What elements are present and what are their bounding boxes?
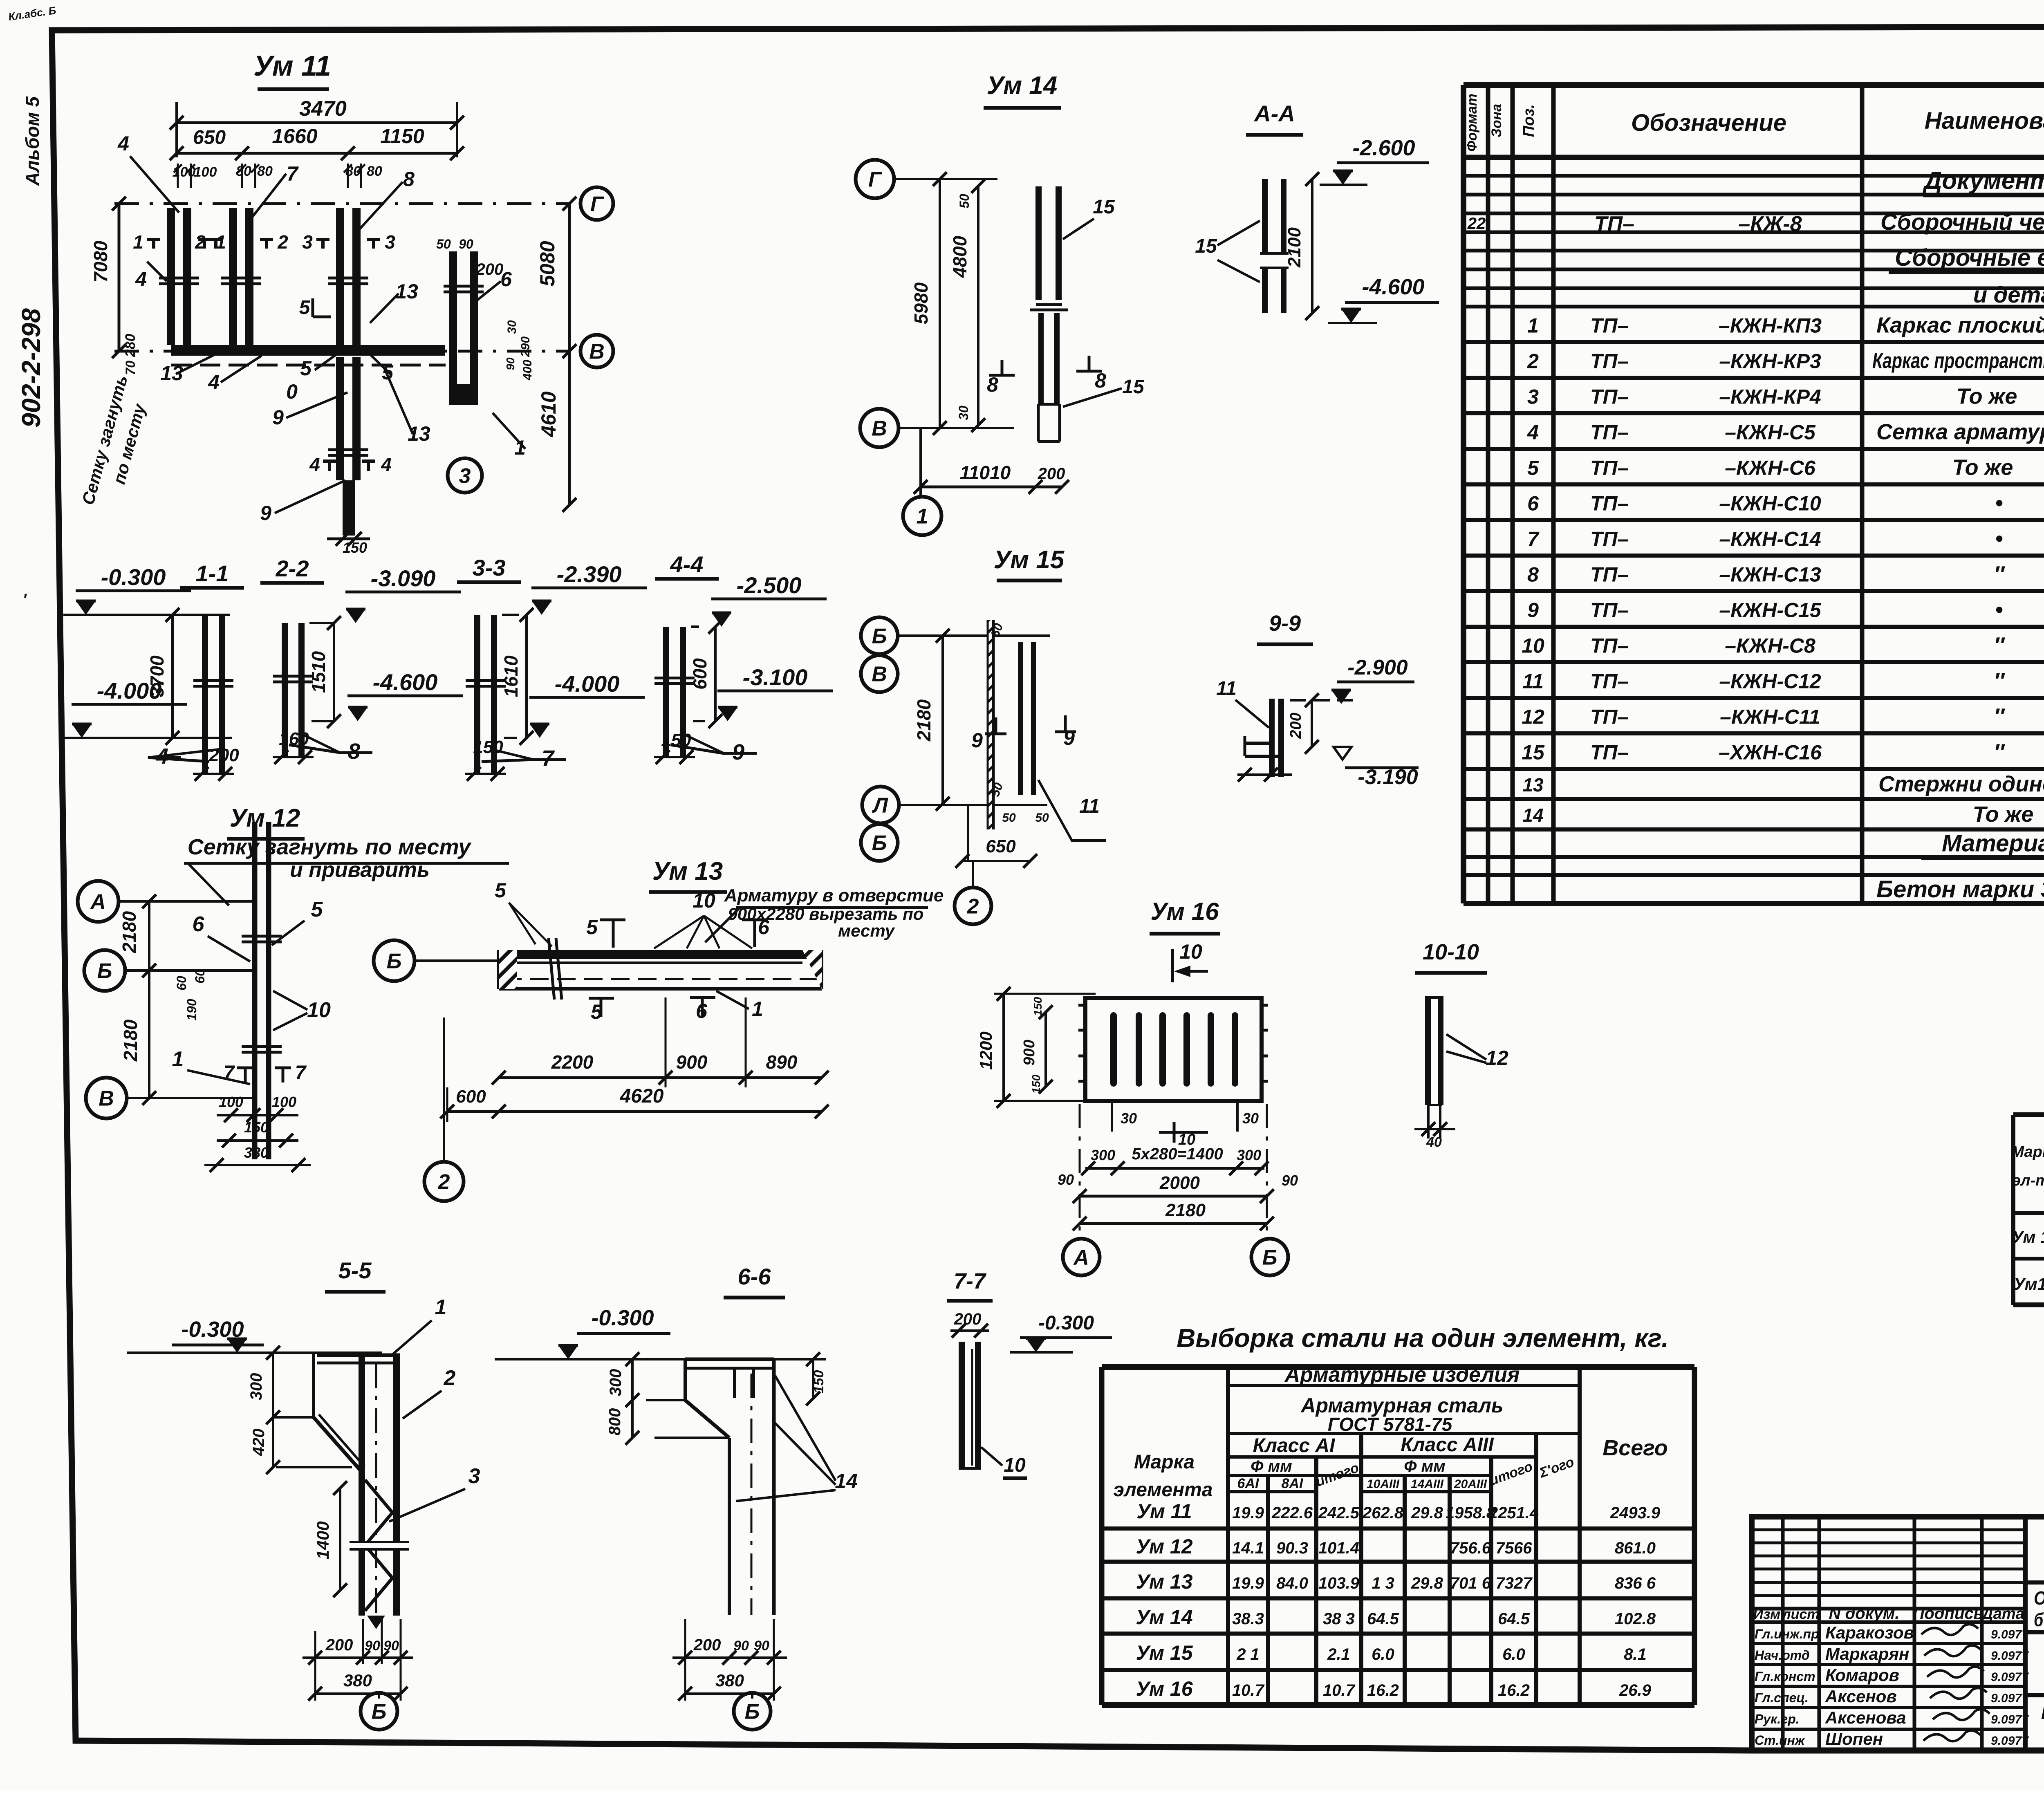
svg-text:29.8: 29.8: [1411, 1574, 1443, 1592]
svg-text:2180: 2180: [120, 1019, 141, 1062]
svg-text:9.0977: 9.0977: [1991, 1649, 2029, 1663]
svg-text:11: 11: [1522, 670, 1544, 693]
svg-text:11: 11: [1216, 678, 1237, 699]
svg-text:Ум 12: Ум 12: [1136, 1535, 1192, 1558]
svg-text:30: 30: [1242, 1110, 1259, 1127]
svg-text:1150: 1150: [380, 125, 424, 148]
svg-text:1400: 1400: [313, 1521, 332, 1559]
svg-text:-2.500: -2.500: [737, 572, 802, 598]
svg-text:7: 7: [1527, 528, 1540, 551]
svg-text:Ум 15: Ум 15: [1136, 1641, 1193, 1664]
svg-text:3470: 3470: [299, 97, 347, 121]
svg-text:2180: 2180: [913, 699, 935, 742]
svg-text:15: 15: [1522, 741, 1545, 764]
svg-text:Подпись: Подпись: [1913, 1605, 1983, 1623]
svg-text:–КЖН-С13: –КЖН-С13: [1719, 563, 1821, 586]
svg-text:Шопен: Шопен: [1825, 1729, 1883, 1748]
svg-text:16.2: 16.2: [1498, 1681, 1530, 1699]
svg-text:В: В: [872, 663, 887, 686]
svg-text:90: 90: [1282, 1172, 1298, 1189]
svg-text:Б: Б: [1262, 1246, 1277, 1270]
svg-text:Б: Б: [387, 950, 402, 973]
svg-text:То же: То же: [1957, 384, 2017, 409]
svg-text:200: 200: [954, 1310, 982, 1328]
svg-text:Выборка стали на один элем: Выборка стали на один элемент, кг.: [1177, 1323, 1669, 1353]
svg-text:84.0: 84.0: [1276, 1574, 1308, 1592]
svg-text:Обозначение: Обозначение: [1631, 110, 1786, 136]
svg-text:-3.100: -3.100: [743, 664, 808, 690]
svg-text:Марка: Марка: [1134, 1451, 1195, 1473]
svg-text:и детали: и детали: [1973, 282, 2044, 307]
svg-text:90: 90: [754, 1638, 769, 1654]
svg-text:6АI: 6АI: [1237, 1476, 1260, 1491]
svg-text:Каркас пространственный КР3: Каркас пространственный КР3: [1872, 349, 2044, 373]
svg-text:2: 2: [967, 895, 979, 919]
svg-text:380: 380: [343, 1671, 372, 1690]
svg-text:380: 380: [715, 1671, 744, 1690]
svg-text:4: 4: [1527, 421, 1539, 444]
svg-text:150: 150: [661, 730, 691, 750]
svg-text:3: 3: [302, 231, 313, 253]
svg-text:14АIII: 14АIII: [1411, 1477, 1444, 1491]
svg-text:В: В: [99, 1087, 114, 1111]
svg-text:8: 8: [1527, 563, 1539, 586]
svg-text:200: 200: [1287, 713, 1304, 739]
svg-text:26.9: 26.9: [1619, 1681, 1652, 1699]
svg-text:9: 9: [971, 729, 983, 752]
svg-text:2180: 2180: [119, 911, 140, 953]
svg-text:19.9: 19.9: [1232, 1574, 1264, 1592]
svg-text:90: 90: [1058, 1171, 1074, 1188]
svg-text:80: 80: [257, 164, 273, 179]
svg-text:1-1: 1-1: [196, 560, 229, 586]
svg-text:Класс АI: Класс АI: [1253, 1435, 1336, 1457]
svg-text:Формат: Формат: [1464, 94, 1480, 152]
svg-text:Очистные сооружения для сточн: Очистные сооружения для сточных вод от м…: [2034, 1587, 2044, 1609]
svg-text:•: •: [1995, 491, 2003, 515]
svg-text:Класс АIII: Класс АIII: [1401, 1434, 1494, 1456]
svg-text:14: 14: [1522, 805, 1543, 826]
svg-text:64.5: 64.5: [1498, 1610, 1530, 1628]
svg-text:150: 150: [473, 737, 503, 757]
svg-text:242.5: 242.5: [1318, 1504, 1360, 1522]
svg-text:7327: 7327: [1496, 1574, 1533, 1592]
svg-text:12: 12: [1522, 706, 1544, 728]
svg-text:13: 13: [1522, 774, 1544, 796]
svg-text:2000: 2000: [1159, 1173, 1200, 1193]
svg-text:А: А: [90, 890, 106, 914]
svg-text:4: 4: [309, 454, 320, 475]
svg-text:2: 2: [444, 1366, 456, 1390]
svg-text:10: 10: [1004, 1455, 1026, 1476]
svg-text:900: 900: [1021, 1040, 1038, 1065]
svg-text:Г: Г: [590, 193, 604, 216]
svg-text:6-6: 6-6: [738, 1264, 771, 1289]
svg-text:-4.600: -4.600: [1362, 275, 1424, 299]
svg-text:50: 50: [1035, 811, 1049, 825]
svg-text:Сетку загнуть по месту: Сетку загнуть по месту: [188, 835, 472, 859]
svg-text:200: 200: [476, 260, 504, 278]
svg-text:9-9: 9-9: [1269, 611, 1301, 636]
svg-text:7: 7: [295, 1062, 307, 1084]
svg-text:1: 1: [1527, 314, 1539, 337]
svg-text:15: 15: [1093, 196, 1115, 218]
svg-text:-0.300: -0.300: [101, 564, 166, 590]
svg-text:20АIII: 20АIII: [1454, 1477, 1487, 1491]
svg-text:–КЖН-КП3: –КЖН-КП3: [1719, 314, 1822, 337]
svg-text:В: В: [589, 340, 605, 364]
svg-text:40: 40: [1426, 1134, 1442, 1150]
svg-text:ТП–: ТП–: [1590, 634, 1629, 657]
svg-text:Б: Б: [872, 832, 887, 855]
svg-text:19.9: 19.9: [1232, 1504, 1264, 1522]
svg-text:10: 10: [693, 889, 715, 912]
svg-text:Документация: Документация: [1922, 167, 2044, 194]
svg-text:150: 150: [343, 539, 367, 556]
svg-text:1 3: 1 3: [1372, 1574, 1394, 1592]
svg-text:10: 10: [1522, 634, 1544, 657]
svg-text:38 3: 38 3: [1323, 1610, 1355, 1628]
svg-text:800: 800: [606, 1408, 624, 1436]
svg-text:5980: 5980: [910, 282, 932, 324]
svg-text:Л: Л: [872, 794, 888, 818]
svg-text:5: 5: [300, 357, 312, 380]
svg-text:ТП–: ТП–: [1590, 421, 1629, 444]
svg-text:Арматурные изделия: Арматурные изделия: [1284, 1363, 1520, 1387]
svg-text:1: 1: [435, 1295, 447, 1319]
svg-text:13: 13: [395, 280, 418, 303]
svg-text:Ум 12: Ум 12: [230, 804, 300, 832]
svg-text:7-7: 7-7: [954, 1269, 987, 1293]
svg-text:7: 7: [287, 162, 299, 185]
svg-text:–КЖ-8: –КЖ-8: [1738, 212, 1802, 236]
svg-text:ТП–: ТП–: [1590, 385, 1629, 408]
svg-text:–КЖН-С8: –КЖН-С8: [1725, 634, 1815, 657]
svg-text:Ф мм: Ф мм: [1251, 1457, 1292, 1475]
svg-text:290: 290: [519, 336, 532, 357]
svg-text:Сетка арматурная С5: Сетка арматурная С5: [1876, 420, 2044, 444]
svg-text:9.0977: 9.0977: [1991, 1692, 2029, 1705]
svg-text:Монолитные участки: Монолитные участки: [2041, 1698, 2044, 1724]
svg-text:Каракозов: Каракозов: [1825, 1623, 1914, 1642]
svg-text:Стержни одиночные: Стержни одиночные: [1878, 772, 2044, 796]
svg-text:То же: То же: [1952, 455, 2013, 480]
svg-text:Сборочные единицы: Сборочные единицы: [1895, 244, 2044, 271]
svg-text:8: 8: [348, 739, 360, 764]
svg-text:60: 60: [193, 969, 207, 984]
svg-text:600: 600: [456, 1087, 486, 1107]
svg-text:лист: лист: [1781, 1607, 1819, 1622]
svg-text:280: 280: [123, 334, 138, 358]
svg-text:3: 3: [468, 1464, 480, 1488]
svg-text:101.4: 101.4: [1318, 1539, 1359, 1557]
svg-text:″: ″: [1994, 740, 2005, 764]
svg-text:Маркарян: Маркарян: [1825, 1644, 1909, 1663]
svg-text:Зона: Зона: [1489, 104, 1504, 137]
svg-text:Арматуру в отверстие: Арматуру в отверстие: [724, 885, 944, 905]
svg-text:•: •: [1995, 598, 2003, 622]
svg-text:–КЖН-КР4: –КЖН-КР4: [1719, 385, 1821, 408]
svg-text:–ХЖН-С16: –ХЖН-С16: [1719, 741, 1822, 764]
svg-text:2: 2: [1527, 350, 1539, 373]
svg-text:Ум 11: Ум 11: [1136, 1500, 1192, 1523]
svg-text:ТП–: ТП–: [1590, 670, 1629, 693]
svg-text:ТП–: ТП–: [1590, 599, 1629, 622]
svg-text:Б: Б: [372, 1700, 387, 1724]
svg-text:месту: месту: [838, 921, 896, 940]
svg-text:Б: Б: [745, 1700, 760, 1724]
svg-text:ТП–: ТП–: [1590, 457, 1629, 480]
svg-text:50: 50: [1002, 811, 1016, 825]
svg-text:-2.600: -2.600: [1352, 136, 1415, 160]
svg-text:150: 150: [1031, 997, 1044, 1016]
svg-text:Ум 14: Ум 14: [1136, 1606, 1192, 1629]
svg-text:Ум13: Ум13: [2013, 1274, 2044, 1293]
svg-text:1: 1: [752, 997, 763, 1020]
svg-text:64.5: 64.5: [1367, 1610, 1399, 1628]
svg-text:-2.900: -2.900: [1347, 656, 1408, 679]
svg-text:ТП–: ТП–: [1590, 492, 1629, 515]
svg-text:–КЖН-С11: –КЖН-С11: [1720, 706, 1820, 728]
svg-text:4: 4: [208, 371, 220, 394]
svg-text:6: 6: [193, 912, 205, 936]
svg-text:Ф мм: Ф мм: [1404, 1457, 1446, 1475]
svg-text:9: 9: [272, 406, 284, 429]
svg-text:2200: 2200: [551, 1051, 594, 1073]
svg-text:60: 60: [174, 976, 189, 991]
svg-text:В: В: [872, 417, 887, 441]
svg-text:Материалы.: Материалы.: [1942, 830, 2044, 857]
svg-text:7: 7: [224, 1062, 235, 1084]
svg-text:Ст.инж: Ст.инж: [1755, 1733, 1805, 1748]
svg-text:Аксенов: Аксенов: [1825, 1687, 1897, 1706]
svg-text:3: 3: [459, 464, 471, 488]
svg-text:150: 150: [244, 1119, 269, 1136]
svg-text:10: 10: [307, 998, 331, 1022]
svg-text:Бетон марки 300: Бетон марки 300: [1876, 876, 2044, 903]
svg-text:756.6: 756.6: [1450, 1539, 1491, 1557]
svg-text:А-А: А-А: [1253, 101, 1295, 126]
svg-text:12: 12: [1486, 1047, 1508, 1069]
svg-text:5: 5: [586, 916, 598, 939]
svg-text:13: 13: [408, 422, 430, 445]
svg-text:Ум 11: Ум 11: [2012, 1227, 2044, 1246]
svg-text:11: 11: [1079, 796, 1100, 817]
svg-text:5: 5: [311, 898, 323, 921]
svg-text:То же: То же: [1973, 802, 2034, 827]
svg-text:30: 30: [956, 406, 971, 420]
svg-text:50: 50: [436, 237, 451, 251]
svg-text:1610: 1610: [500, 655, 522, 697]
svg-text:15: 15: [1195, 235, 1217, 257]
svg-text:890: 890: [766, 1051, 798, 1073]
svg-text:-3.090: -3.090: [371, 565, 436, 591]
svg-text:1: 1: [133, 231, 143, 253]
svg-text:14: 14: [835, 1470, 858, 1493]
svg-text:90: 90: [733, 1638, 749, 1654]
svg-text:Б: Б: [97, 959, 112, 983]
svg-text:90.3: 90.3: [1276, 1539, 1308, 1557]
svg-text:Изм: Изм: [1753, 1607, 1781, 1622]
svg-text:80: 80: [367, 164, 382, 179]
svg-text:200: 200: [208, 745, 239, 765]
svg-text:4800: 4800: [949, 235, 970, 278]
svg-text:Комаров: Комаров: [1825, 1665, 1899, 1685]
svg-text:1660: 1660: [272, 125, 317, 148]
svg-text:15: 15: [1122, 376, 1145, 398]
svg-text:элемента: элемента: [1114, 1479, 1213, 1501]
svg-text:300: 300: [607, 1369, 625, 1396]
svg-text:Всего: Всего: [1602, 1436, 1668, 1460]
svg-text:0: 0: [286, 380, 298, 403]
svg-text:Ум 13: Ум 13: [652, 857, 723, 885]
svg-text:Ум 15: Ум 15: [994, 546, 1065, 574]
svg-text:-4.000: -4.000: [555, 671, 620, 697]
svg-text:Аксенова: Аксенова: [1825, 1708, 1906, 1727]
svg-text:″: ″: [1994, 633, 2005, 658]
svg-text:4620: 4620: [620, 1085, 664, 1107]
svg-text:150: 150: [1030, 1074, 1042, 1094]
svg-text:9.0977: 9.0977: [1991, 1713, 2029, 1726]
svg-text:103.9: 103.9: [1318, 1574, 1360, 1592]
svg-text:100: 100: [219, 1094, 243, 1110]
svg-text:Г: Г: [868, 168, 882, 192]
svg-text:90: 90: [365, 1638, 380, 1654]
svg-text:Ум 13: Ум 13: [1136, 1570, 1192, 1593]
svg-text:8.1: 8.1: [1624, 1645, 1647, 1663]
svg-text:1958.8: 1958.8: [1446, 1504, 1496, 1522]
svg-text:9.0977: 9.0977: [1991, 1734, 2029, 1748]
svg-text:6: 6: [500, 268, 512, 291]
svg-text:600: 600: [689, 658, 710, 690]
svg-text:2493.9: 2493.9: [1610, 1504, 1661, 1522]
svg-text:100: 100: [194, 164, 217, 180]
svg-text:4610: 4610: [537, 391, 560, 437]
svg-text:ТП–: ТП–: [1590, 350, 1629, 373]
svg-text:902-2-298: 902-2-298: [16, 308, 46, 428]
svg-text:90: 90: [383, 1638, 399, 1654]
svg-text:4: 4: [381, 454, 392, 475]
svg-text:8АI: 8АI: [1282, 1476, 1304, 1491]
svg-text:Поз.: Поз.: [1520, 104, 1537, 137]
svg-text:ТП–: ТП–: [1590, 528, 1629, 551]
svg-text:2251.4: 2251.4: [1488, 1504, 1539, 1522]
svg-text:7: 7: [542, 746, 555, 771]
svg-text:262.8: 262.8: [1362, 1504, 1404, 1522]
svg-text:90: 90: [459, 237, 473, 251]
svg-text:5: 5: [299, 297, 311, 318]
svg-text:ТП–: ТП–: [1590, 314, 1629, 337]
svg-text:–КЖН-С10: –КЖН-С10: [1719, 492, 1821, 515]
svg-text:Ум 16: Ум 16: [1136, 1677, 1193, 1700]
svg-text:6: 6: [1527, 492, 1539, 515]
svg-text:и приварить: и приварить: [290, 858, 430, 882]
svg-text:': ': [22, 591, 27, 609]
svg-text:50: 50: [957, 194, 972, 208]
svg-text:650: 650: [193, 127, 226, 148]
svg-text:1: 1: [172, 1047, 184, 1071]
svg-text:4: 4: [117, 132, 129, 155]
svg-text:Гл.инж.пр: Гл.инж.пр: [1755, 1627, 1819, 1641]
svg-text:30: 30: [505, 320, 519, 334]
svg-text:5: 5: [1527, 457, 1539, 480]
svg-text:5-5: 5-5: [338, 1257, 372, 1283]
svg-text:4: 4: [156, 744, 168, 769]
svg-text:150: 150: [811, 1370, 827, 1394]
svg-text:1: 1: [917, 505, 928, 529]
svg-text:5080: 5080: [536, 241, 559, 286]
svg-text:200: 200: [693, 1636, 721, 1654]
svg-text:-4.600: -4.600: [373, 669, 438, 695]
svg-text:14.1: 14.1: [1232, 1539, 1264, 1557]
svg-text:300: 300: [247, 1373, 265, 1401]
svg-text:–КЖН-С12: –КЖН-С12: [1719, 670, 1821, 693]
svg-text:билей с расходом воды 20 л/сек: билей с расходом воды 20 л/сек. при обор…: [2034, 1609, 2044, 1630]
svg-text:″: ″: [1994, 669, 2005, 693]
svg-text:4-4: 4-4: [670, 551, 704, 577]
svg-text:эл-та: эл-та: [2012, 1172, 2044, 1189]
svg-text:ТП–: ТП–: [1594, 212, 1634, 236]
svg-text:N докум.: N докум.: [1829, 1605, 1900, 1623]
svg-text:6.0: 6.0: [1502, 1645, 1525, 1663]
svg-text:100: 100: [272, 1094, 296, 1110]
svg-text:Нач.отд: Нач.отд: [1755, 1648, 1810, 1663]
svg-text:2-2: 2-2: [276, 556, 309, 581]
svg-text:9: 9: [260, 502, 271, 524]
svg-text:″: ″: [1994, 562, 2005, 587]
svg-text:190: 190: [184, 999, 199, 1021]
svg-text:ТП–: ТП–: [1590, 706, 1629, 728]
svg-text:6.0: 6.0: [1372, 1645, 1394, 1663]
svg-text:″: ″: [1994, 704, 2005, 729]
svg-text:ГОСТ 5781-75: ГОСТ 5781-75: [1328, 1414, 1453, 1435]
svg-text:•: •: [1995, 527, 2003, 551]
svg-text:-0.300: -0.300: [591, 1306, 654, 1330]
svg-text:10.7: 10.7: [1232, 1681, 1265, 1699]
svg-text:Альбом 5: Альбом 5: [22, 96, 43, 186]
svg-text:10-10: 10-10: [1423, 940, 1479, 964]
svg-text:3-3: 3-3: [473, 555, 506, 580]
svg-text:8: 8: [403, 168, 415, 191]
svg-text:200: 200: [325, 1636, 353, 1654]
svg-text:Наименование: Наименование: [1925, 108, 2044, 134]
svg-text:5х280=1400: 5х280=1400: [1132, 1145, 1223, 1163]
svg-text:400: 400: [521, 360, 534, 381]
svg-text:3: 3: [1527, 385, 1539, 408]
svg-text:Каркас плоский: Каркас плоский: [1876, 313, 2044, 338]
svg-text:10: 10: [1179, 940, 1202, 963]
svg-text:9.0977: 9.0977: [1991, 1670, 2029, 1684]
svg-text:222.6: 222.6: [1271, 1504, 1313, 1522]
svg-text:38.3: 38.3: [1232, 1610, 1264, 1628]
svg-text:380: 380: [244, 1144, 269, 1161]
svg-text:5: 5: [495, 879, 507, 902]
svg-text:ТП–: ТП–: [1590, 741, 1629, 764]
svg-text:90: 90: [504, 357, 517, 370]
svg-text:70: 70: [123, 361, 138, 375]
svg-text:650: 650: [986, 836, 1016, 856]
svg-text:2100: 2100: [1284, 227, 1304, 268]
svg-text:30: 30: [1121, 1110, 1137, 1127]
svg-text:-3.190: -3.190: [1358, 765, 1418, 789]
svg-text:Ум 16: Ум 16: [1151, 898, 1219, 925]
svg-text:836 6: 836 6: [1615, 1574, 1656, 1592]
svg-text:-0.300: -0.300: [1038, 1312, 1094, 1334]
svg-text:Гл.конст: Гл.конст: [1755, 1669, 1815, 1684]
svg-text:-4.000: -4.000: [97, 678, 162, 704]
svg-text:2: 2: [195, 231, 206, 253]
svg-text:Дата: Дата: [1981, 1605, 2024, 1623]
